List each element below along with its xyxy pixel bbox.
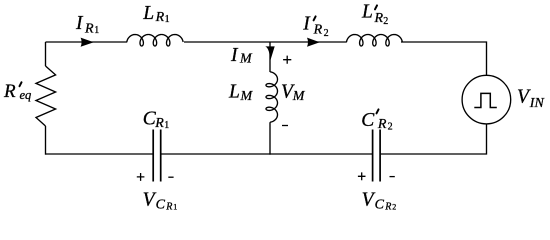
svg-text:2: 2 xyxy=(392,203,396,212)
plus sign V_M xyxy=(283,56,291,64)
svg-text:R: R xyxy=(384,202,391,213)
wire middle branch upper xyxy=(269,42,271,72)
label L_R1 xyxy=(142,3,169,25)
label V_IN xyxy=(517,87,544,111)
plus sign C'_R2 xyxy=(358,172,366,180)
arrow I_M (down) xyxy=(265,46,274,61)
wire left top stub xyxy=(45,42,47,66)
label I'_R2 xyxy=(302,13,328,39)
svg-text:I: I xyxy=(230,45,239,66)
capacitor C'_R2 plates xyxy=(373,130,381,182)
svg-text:1: 1 xyxy=(173,203,177,212)
svg-text:L: L xyxy=(142,3,154,24)
wire left bottom stub xyxy=(45,126,47,155)
minus sign C_R1 xyxy=(168,176,173,178)
voltage source V_IN circle xyxy=(462,75,511,124)
svg-text:L: L xyxy=(361,1,373,22)
label L'_R2 xyxy=(361,1,388,27)
svg-text:R: R xyxy=(165,202,172,213)
svg-text:R: R xyxy=(3,81,16,102)
svg-text:R: R xyxy=(155,10,165,25)
inductor L_R1 xyxy=(127,35,183,47)
minus sign V_M xyxy=(282,125,288,127)
capacitor C_R1 plates xyxy=(153,130,161,182)
svg-text:R: R xyxy=(313,23,323,38)
label V_C_R2 xyxy=(362,189,397,212)
svg-text:R: R xyxy=(377,117,387,132)
svg-text:M: M xyxy=(292,89,306,104)
svg-text:eq: eq xyxy=(20,88,32,102)
wire middle branch lower xyxy=(269,122,271,155)
label C'_R2 xyxy=(361,109,392,132)
pulse symbol inside source xyxy=(474,93,497,107)
svg-text:R: R xyxy=(374,11,384,26)
wire bottom-right xyxy=(380,124,486,154)
svg-text:1: 1 xyxy=(94,25,99,36)
label C_R1 xyxy=(143,108,170,131)
svg-text:L: L xyxy=(228,82,240,103)
inductor L'_R2 xyxy=(347,35,403,47)
svg-text:1: 1 xyxy=(165,14,170,25)
wire top-right xyxy=(401,42,487,75)
svg-text:C: C xyxy=(156,197,166,212)
arrow I_R1 xyxy=(81,38,94,47)
plus sign C_R1 xyxy=(137,173,145,181)
svg-text:C: C xyxy=(375,197,385,212)
svg-text:R: R xyxy=(154,116,164,131)
svg-text:IN: IN xyxy=(529,96,545,111)
wire top-left xyxy=(46,41,128,43)
svg-text:I: I xyxy=(75,13,84,34)
arrow I'_R2 xyxy=(307,38,320,47)
svg-text:R: R xyxy=(84,21,94,36)
svg-text:1: 1 xyxy=(164,120,169,131)
minus sign C'_R2 xyxy=(390,176,395,178)
label V_C_R1 xyxy=(143,189,178,212)
svg-text:C: C xyxy=(361,110,375,131)
svg-text:M: M xyxy=(240,89,254,104)
label L_M xyxy=(228,82,254,104)
inductor L_M xyxy=(266,72,278,122)
svg-text:2: 2 xyxy=(388,122,393,133)
svg-text:M: M xyxy=(239,52,253,67)
svg-text:I: I xyxy=(302,13,311,34)
wire bottom-middle xyxy=(161,153,372,155)
svg-text:V: V xyxy=(362,189,376,210)
label I_R1 xyxy=(75,13,99,36)
label R'_eq xyxy=(3,81,31,102)
svg-text:V: V xyxy=(143,189,157,210)
svg-text:2: 2 xyxy=(383,16,388,27)
wire bottom-left xyxy=(46,153,153,155)
wire top-middle xyxy=(184,41,347,43)
label V_M xyxy=(281,82,306,104)
resistor R'_eq xyxy=(36,66,56,126)
svg-text:2: 2 xyxy=(324,28,329,39)
label I_M xyxy=(230,45,253,67)
